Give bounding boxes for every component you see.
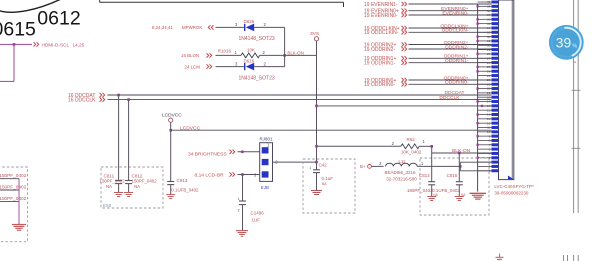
svg-text:C813: C813 [177,178,188,183]
svg-text:0.1UFB_0402: 0.1UFB_0402 [171,187,199,192]
svg-text:ODDRIN0-: ODDRIN0- [445,80,469,86]
svg-text:B+: B+ [360,164,366,169]
svg-text:8,14 LCD-BR: 8,14 LCD-BR [195,172,225,178]
svg-text:0612: 0612 [37,8,80,30]
svg-text:19 ODDRIN0-: 19 ODDRIN0- [364,82,395,88]
svg-text:C1496: C1496 [251,210,265,215]
svg-text:0.1uF: 0.1uF [322,176,334,181]
svg-text:10K: 10K [247,47,255,52]
svg-text:LVC-C40SFYG-TP*: LVC-C40SFYG-TP* [494,184,534,189]
svg-text:39: 39 [556,35,572,50]
svg-text:a: a [574,60,576,64]
svg-text:1N4148_SOT23: 1N4148_SOT23 [239,76,275,82]
svg-text:C814: C814 [419,173,430,178]
svg-text:19 ODDRIN2-: 19 ODDRIN2- [364,47,395,53]
svg-text:180PF_0402: 180PF_0402 [407,188,433,193]
svg-text:1N4148_SOT23: 1N4148_SOT23 [239,36,275,42]
svg-text:EVENRIN0-: EVENRIN0- [442,10,468,16]
svg-text:19 EVENRIN1-: 19 EVENRIN1- [364,2,398,8]
svg-text:%: % [572,44,577,50]
svg-text:BLK-ON: BLK-ON [287,51,303,56]
svg-text:R62: R62 [407,137,416,142]
svg-text:0615: 0615 [0,19,36,41]
svg-text:ODDRIN2-: ODDRIN2- [445,44,469,50]
svg-text:LCDVCC: LCDVCC [162,112,182,118]
svg-text:32-703216-500: 32-703216-500 [386,176,417,181]
svg-text:C815: C815 [447,173,458,178]
svg-text:HDMI-D-SCL: HDMI-D-SCL [42,42,70,47]
svg-text:150PF_0402: 150PF_0402 [100,179,126,184]
svg-text:EJB: EJB [261,185,269,190]
svg-text:ODDRIN1-: ODDRIN1- [445,58,469,64]
svg-text:16 BLON: 16 BLON [181,53,199,58]
svg-text:BEADI56_3216: BEADI56_3216 [385,170,417,175]
svg-text:ODDCLKIN-: ODDCLKIN- [442,28,469,34]
svg-text:1: 1 [309,166,311,170]
svg-text:19 EVENRIN0-: 19 EVENRIN0- [364,13,398,19]
svg-text:NA: NA [106,184,112,189]
svg-text:150PF_0402: 150PF_0402 [0,196,27,201]
svg-text:34 BRIGHTNESS: 34 BRIGHTNESS [188,151,227,157]
svg-text:1UF: 1UF [252,217,261,222]
svg-text:MPWROK: MPWROK [182,25,202,30]
svg-text:8,24,34,41: 8,24,34,41 [152,25,173,30]
svg-text:150PF_0402: 150PF_0402 [0,173,27,178]
svg-text:2: 2 [238,209,240,213]
svg-text:14,25: 14,25 [73,42,85,47]
svg-text:D626: D626 [244,19,255,24]
svg-text:DDCCLK: DDCCLK [439,95,460,101]
svg-text:19 ODDCLKIN-: 19 ODDCLKIN- [364,30,399,36]
svg-text:EMI: EMI [103,203,111,208]
svg-text:NA: NA [134,184,140,189]
svg-text:10K_0402: 10K_0402 [401,149,422,154]
svg-text:0.1UFB_0402: 0.1UFB_0402 [432,188,460,193]
svg-text:39-05000002230: 39-05000002230 [494,190,529,195]
svg-text:24 LCM: 24 LCM [185,64,201,69]
svg-text:19 ODDRIN1-: 19 ODDRIN1- [364,61,395,67]
svg-text:R1016: R1016 [218,49,232,54]
svg-text:1: 1 [238,197,240,201]
svg-text:16 DDCCLK: 16 DDCCLK [68,98,96,104]
svg-text:RJ801: RJ801 [260,137,274,142]
svg-text:3VS: 3VS [310,31,319,37]
svg-text:D616: D616 [244,59,255,64]
svg-text:C42: C42 [319,162,328,167]
svg-text:150PF_0402: 150PF_0402 [0,185,27,190]
svg-text:NA: NA [322,182,327,186]
